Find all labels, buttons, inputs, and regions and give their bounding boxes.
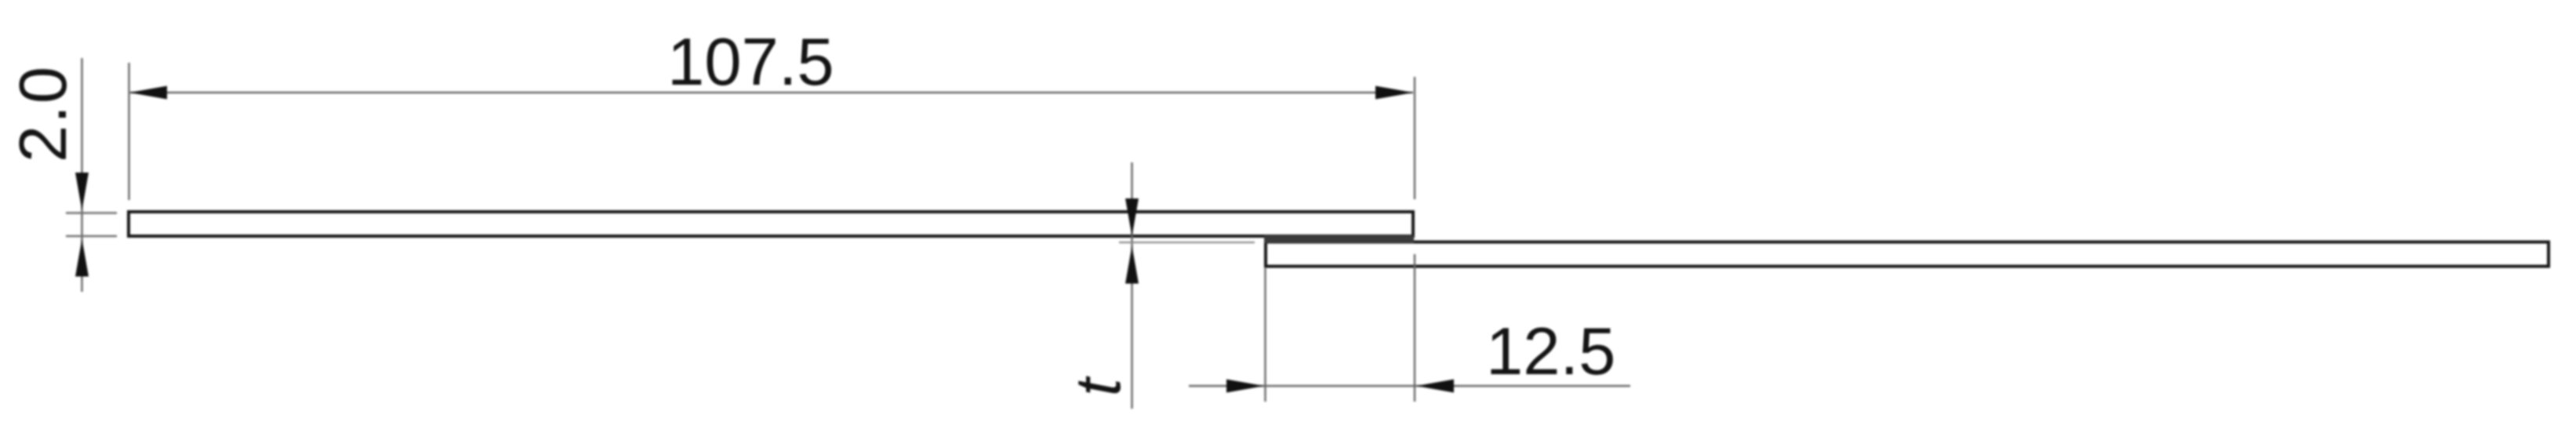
svg-text:107.5: 107.5 [667,25,834,100]
svg-text:t: t [1063,376,1134,396]
svg-text:12.5: 12.5 [1486,315,1615,389]
svg-text:2.0: 2.0 [6,65,81,162]
